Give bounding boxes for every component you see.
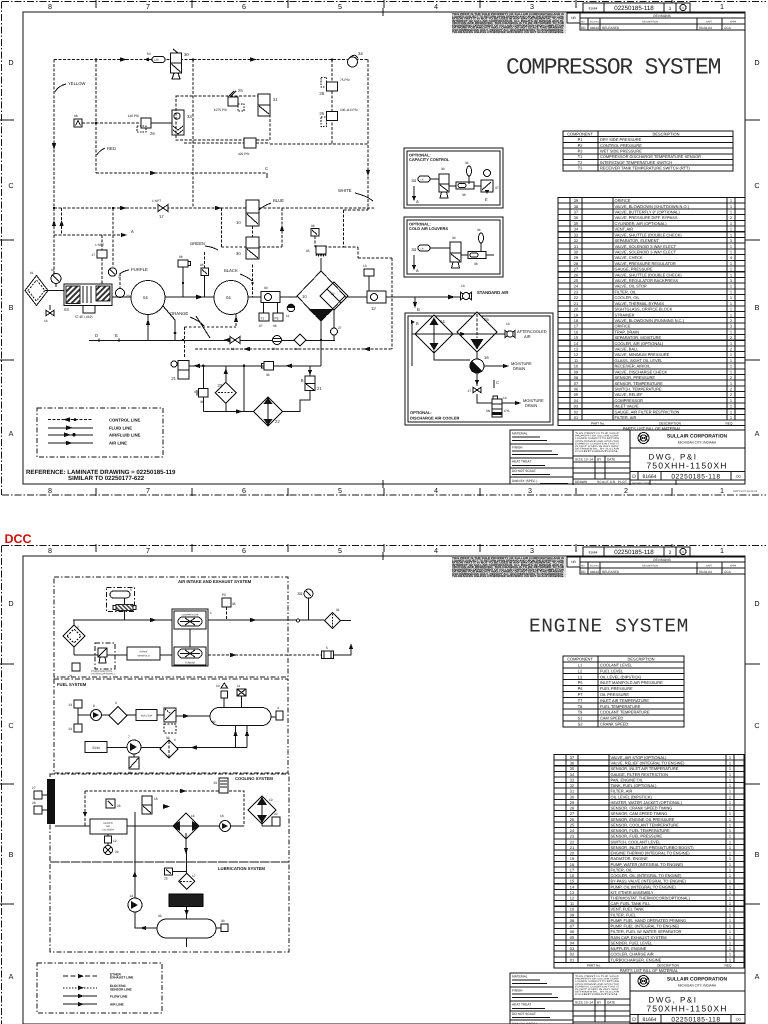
restriction gauge 02: [51, 268, 61, 287]
pill LR valve 30: [144, 52, 165, 63]
svg-text:34: 34: [465, 161, 469, 165]
svg-text:RAIN CAP, EXHAUST SYSTEM: RAIN CAP, EXHAUST SYSTEM: [611, 935, 667, 940]
svg-text:PARTS LIST BILL OF MATERIAL: PARTS LIST BILL OF MATERIAL: [620, 968, 679, 973]
svg-text:32: 32: [570, 783, 574, 788]
svg-text:COMPRESSOR: COMPRESSOR: [615, 398, 644, 403]
svg-text:P5: P5: [222, 593, 226, 597]
coolant sensor 28: [32, 801, 47, 814]
svg-text:29: 29: [115, 850, 119, 854]
svg-text:13: 13: [231, 347, 235, 351]
svg-text:KIT, ETHER ASSEMBLY: KIT, ETHER ASSEMBLY: [611, 890, 654, 895]
svg-text:27: 27: [574, 267, 578, 272]
svg-text:A: A: [9, 972, 14, 981]
svg-text:FUEL PRESSURE: FUEL PRESSURE: [600, 686, 633, 691]
svg-text:SENSOR, INLET AIR PRESS(TURBO: SENSOR, INLET AIR PRESS(TURBO BOOST): [611, 845, 695, 850]
svg-text:THERMOSTAT, THERMOCORD(OPTIONA: THERMOSTAT, THERMOCORD(OPTIONAL): [611, 896, 691, 901]
compressor drain stems: [146, 306, 238, 340]
svg-text:1: 1: [730, 381, 732, 386]
oil line to lube: [184, 833, 188, 873]
svg-text:3: 3: [528, 486, 532, 495]
svg-text:ECN No.: ECN No.: [590, 21, 600, 24]
svg-text:MATERIAL: MATERIAL: [512, 975, 528, 979]
svg-text:A: A: [9, 429, 14, 438]
ether injector: [91, 643, 115, 676]
svg-text::OO: :OO: [735, 1018, 741, 1022]
label black: [224, 268, 252, 281]
svg-text:1: 1: [729, 946, 731, 951]
cooling system box: [50, 774, 289, 862]
component legend table: [563, 131, 733, 171]
svg-text:03-04-04: 03-04-04: [699, 26, 712, 30]
fuel line: [78, 708, 91, 724]
svg-text:P3: P3: [578, 149, 584, 154]
svg-text::OO: :OO: [735, 475, 741, 479]
component legend table: [563, 656, 684, 727]
svg-text:5: 5: [338, 486, 342, 495]
separator element 32: [320, 282, 348, 310]
svg-text:5: 5: [338, 546, 342, 555]
svg-text:COMPONENT: COMPONENT: [567, 131, 593, 136]
svg-text:12: 12: [113, 839, 117, 843]
svg-text:COLD AIR LOUVERS: COLD AIR LOUVERS: [409, 226, 448, 231]
label blue: [259, 198, 284, 210]
svg-text:EXPRESS CONDITION THAT IT: EXPRESS CONDITION THAT IT: [575, 985, 620, 988]
svg-text:19: 19: [570, 856, 574, 861]
svg-text:13: 13: [363, 264, 367, 268]
shuttle valve 33: [172, 110, 192, 135]
svg-text:PUMP, OIL (INTEGRAL TO ENGINE): PUMP, OIL (INTEGRAL TO ENGINE): [611, 884, 677, 889]
svg-text:AIR LINE: AIR LINE: [109, 441, 127, 446]
svg-text:CONTROL PRESSURE: CONTROL PRESSURE: [600, 143, 642, 148]
svg-text:7: 7: [146, 2, 150, 11]
svg-text:36: 36: [266, 373, 270, 377]
svg-text:12: 12: [574, 352, 578, 357]
svg-text:RELEASED: RELEASED: [602, 570, 620, 574]
border ruler left: [0, 2, 14, 496]
oil filter 23: [215, 366, 236, 412]
svg-text:FILTER, OIL: FILTER, OIL: [611, 867, 634, 872]
svg-text:D: D: [632, 474, 636, 480]
label green: [190, 241, 218, 250]
drain trap 16: [44, 305, 54, 323]
svg-text:14: 14: [129, 894, 133, 898]
ECM box: [85, 742, 107, 753]
svg-text:ETHER INJECTION: ETHER INJECTION: [91, 670, 112, 673]
svg-text:COMPRESSOR DISCHARGE TEMPERATU: COMPRESSOR DISCHARGE TEMPERATURE SENSOR: [600, 154, 701, 159]
svg-text:SENSOR, CRANK SPEED TIMING: SENSOR, CRANK SPEED TIMING: [611, 806, 673, 811]
sensor 26: [106, 799, 121, 808]
svg-text:DRAWN: DRAWN: [575, 480, 588, 484]
svg-text:P6: P6: [578, 686, 584, 691]
svg-text:FILTER, OIL: FILTER, OIL: [615, 289, 638, 294]
svg-text:16: 16: [484, 355, 489, 360]
svg-text:DESCRIPTION: DESCRIPTION: [628, 657, 655, 662]
wire filter to pan: [184, 907, 188, 920]
svg-text:DETRIMENTAL. BY SULLAIR: DETRIMENTAL. BY SULLAIR: [575, 448, 619, 451]
svg-text:P5: P5: [578, 680, 584, 685]
svg-text:08: 08: [311, 224, 315, 228]
svg-text:2: 2: [730, 215, 732, 220]
svg-text:INLET VALVE: INLET VALVE: [615, 404, 640, 409]
svg-text:31: 31: [574, 244, 578, 249]
svg-text:SYSTEM (OPTIONAL): SYSTEM (OPTIONAL): [91, 673, 115, 676]
gauge 27b: [331, 310, 342, 341]
svg-text:UPON DEMAND AND UPON THE: UPON DEMAND AND UPON THE: [575, 440, 620, 443]
fuel sensor 24: [68, 724, 82, 732]
svg-text:2: 2: [730, 318, 732, 323]
svg-text:NO: NO: [581, 21, 585, 24]
tank vent 10: [216, 683, 228, 708]
svg-text:T2: T2: [578, 160, 583, 165]
svg-text:COOLER, OIL: COOLER, OIL: [615, 295, 641, 300]
svg-text:6: 6: [174, 738, 176, 742]
svg-text:02250185-118: 02250185-118: [671, 474, 720, 481]
svg-text:TOLERANCES UNLESS OTHERWISE SP: TOLERANCES UNLESS OTHERWISE SPECIFIED. D…: [452, 575, 564, 578]
svg-text:140 PSI: 140 PSI: [128, 114, 139, 118]
svg-text:1: 1: [729, 935, 731, 940]
svg-text:30: 30: [236, 251, 241, 256]
svg-text:1: 1: [730, 295, 732, 300]
receiver oil sump: [308, 309, 334, 321]
svg-text:19: 19: [269, 798, 273, 802]
svg-text:1: 1: [729, 817, 731, 822]
svg-text:39: 39: [574, 198, 578, 203]
svg-text:11: 11: [237, 684, 241, 688]
svg-text:AFTERCOOLED: AFTERCOOLED: [517, 329, 547, 334]
svg-text:FUEL SYSTEM: FUEL SYSTEM: [57, 682, 87, 687]
svg-text:3N: 3N: [486, 409, 491, 413]
svg-text:1: 1: [730, 409, 732, 414]
oil sensor 25: [164, 868, 187, 881]
svg-text:MICHIGAN CITY, INDIANA: MICHIGAN CITY, INDIANA: [678, 984, 717, 988]
svg-text:1: 1: [730, 369, 732, 374]
svg-text:HEATER, WATER JACKET (OPTIONAL: HEATER, WATER JACKET (OPTIONAL): [611, 800, 683, 805]
svg-text:01: 01: [570, 957, 574, 962]
svg-text:EXHAUST LINE: EXHAUST LINE: [110, 976, 133, 980]
svg-text:HEATED: HEATED: [103, 822, 113, 825]
svg-text:1: 1: [730, 341, 732, 346]
svg-text:UPON DEMAND AND UPON THE: UPON DEMAND AND UPON THE: [575, 983, 620, 986]
svg-text:26: 26: [117, 804, 121, 808]
svg-text:DD: DD: [581, 26, 586, 30]
svg-text:T3: T3: [578, 166, 583, 171]
svg-text:DESCRIPTION: DESCRIPTION: [659, 421, 681, 425]
svg-text:1: 1: [729, 806, 731, 811]
svg-text:33: 33: [158, 914, 162, 918]
reference note: [26, 469, 176, 482]
svg-text:DATE: DATE: [706, 21, 712, 24]
long oil return: [133, 812, 137, 900]
svg-text:IS NOT USED IN ANY WAY: IS NOT USED IN ANY WAY: [575, 988, 620, 991]
svg-text:1: 1: [729, 879, 731, 884]
compressor 04 stage2: [214, 281, 248, 315]
wire control vertical x96: [95, 60, 97, 174]
turbocharger 01 unit: [172, 609, 212, 666]
svg-text:ORIFICE: ORIFICE: [615, 324, 631, 329]
svg-text:1: 1: [730, 329, 732, 334]
svg-text:VALVE, CHECK: VALVE, CHECK: [615, 255, 643, 260]
svg-text:750XHH-1150XH: 750XHH-1150XH: [646, 461, 727, 471]
rain cap 05: [322, 644, 354, 659]
svg-text:75 PSI: 75 PSI: [340, 78, 350, 82]
svg-text:T1: T1: [578, 154, 583, 159]
wire blue vertical: [252, 226, 254, 237]
svg-text:DESCRIPTION: DESCRIPTION: [653, 131, 680, 136]
air filter 01: [25, 271, 48, 306]
oil pump 14: [128, 894, 142, 912]
svg-text:SEPARATOR, MOISTURE: SEPARATOR, MOISTURE: [615, 335, 662, 340]
moisture separator 15: [457, 312, 497, 352]
svg-text:1: 1: [730, 261, 732, 266]
svg-text:33: 33: [187, 114, 192, 119]
svg-text:25: 25: [319, 111, 324, 116]
svg-text:30: 30: [452, 236, 456, 240]
injector block: [127, 710, 157, 721]
engine radiator fan 19: [248, 796, 276, 824]
svg-text:AIR: AIR: [106, 825, 110, 828]
svg-text:DETRIMENTAL. BY SULLAIR: DETRIMENTAL. BY SULLAIR: [575, 991, 619, 994]
svg-text:420 PSI: 420 PSI: [238, 152, 249, 156]
optional discharge air cooler box: [405, 313, 553, 425]
svg-text:7: 7: [146, 546, 150, 555]
svg-text:SENSOR, COOLANT TEMPERATURE: SENSOR, COOLANT TEMPERATURE: [611, 822, 680, 827]
svg-text:04: 04: [143, 295, 148, 300]
svg-text:04644: 04644: [590, 570, 599, 574]
svg-text:CONTROL LINE: CONTROL LINE: [109, 417, 141, 422]
label white: [338, 188, 373, 201]
receiver tank 10: [297, 271, 345, 321]
svg-text:1: 1: [730, 209, 732, 214]
regulator 28: [319, 78, 349, 97]
water pump 18: [220, 814, 231, 832]
drawing frame: [23, 556, 745, 1024]
svg-text:5: 5: [338, 2, 342, 11]
svg-text:8: 8: [48, 486, 52, 495]
svg-text:OIL PRESSURE: OIL PRESSURE: [600, 692, 629, 697]
svg-text:DO NOT SCALE: DO NOT SCALE: [512, 1012, 536, 1016]
svg-text:GLASS, SIGHT OIL LEVEL: GLASS, SIGHT OIL LEVEL: [615, 358, 664, 363]
svg-text:19: 19: [574, 312, 578, 317]
svg-text:13: 13: [506, 322, 510, 326]
svg-text:1: 1: [669, 6, 672, 12]
svg-text:DRAIN: DRAIN: [513, 366, 525, 371]
sensor 08 box: [311, 224, 344, 247]
svg-text:10: 10: [216, 684, 220, 688]
wire thermal valve out: [189, 364, 244, 368]
svg-text:36: 36: [128, 771, 132, 775]
svg-text:1 NPT: 1 NPT: [152, 199, 161, 203]
svg-text:1: 1: [730, 404, 732, 409]
svg-text:SIZE 10-14: SIZE 10-14: [575, 458, 593, 462]
svg-text:SENSOR LINE: SENSOR LINE: [110, 987, 132, 991]
optional cold air louvers box: [404, 217, 503, 277]
svg-text:TURBOCHARGER, ENGINE: TURBOCHARGER, ENGINE: [611, 957, 662, 962]
svg-text:17: 17: [570, 867, 574, 872]
svg-text:1: 1: [729, 789, 731, 794]
wire control vertical x193: [192, 60, 194, 209]
svg-text:3: 3: [530, 546, 534, 555]
fuel valve 36b: [157, 708, 176, 740]
svg-text:8: 8: [93, 704, 95, 708]
svg-text:LUBRICATION SYSTEM: LUBRICATION SYSTEM: [218, 866, 265, 871]
svg-text:08: 08: [179, 255, 183, 259]
svg-text:DESCRIPTION: DESCRIPTION: [642, 21, 658, 24]
svg-text:1: 1: [730, 301, 732, 306]
svg-text:29: 29: [213, 781, 217, 785]
svg-text:12: 12: [570, 896, 574, 901]
svg-text:VALVE, MINIMUM PRESSURE: VALVE, MINIMUM PRESSURE: [615, 352, 670, 357]
inlet valve 03: [236, 200, 259, 226]
svg-text:PROPERTY OF SULLAIR CORP.: PROPERTY OF SULLAIR CORP.: [575, 978, 619, 981]
svg-text:VALVE, RELIEF: VALVE, RELIEF: [615, 392, 644, 397]
wire discharge: [386, 295, 461, 300]
svg-text:1: 1: [729, 907, 731, 912]
svg-text:DISCHARGE AIR COOLER: DISCHARGE AIR COOLER: [410, 416, 459, 421]
svg-text:VENT, FUEL TANK: VENT, FUEL TANK: [611, 907, 645, 912]
relief valve 05: [306, 246, 326, 271]
svg-text:1: 1: [730, 249, 732, 254]
svg-text:OIL LEVEL (DIPSTICK): OIL LEVEL (DIPSTICK): [611, 794, 653, 799]
svg-text:T1: T1: [261, 317, 265, 321]
thermostat 20: [142, 796, 170, 814]
svg-text:1: 1: [729, 873, 731, 878]
svg-text:1: 1: [210, 611, 212, 615]
svg-text:C: C: [496, 380, 499, 385]
svg-text:21: 21: [570, 845, 574, 850]
svg-text:DO NOT SCALE: DO NOT SCALE: [512, 469, 536, 473]
lube label box: [169, 894, 203, 907]
regulator 25: [319, 108, 357, 127]
svg-text:C: C: [8, 721, 13, 730]
pressure diff valve 36: [262, 362, 274, 378]
svg-text:ECN No.: ECN No.: [590, 565, 600, 568]
wire pump to pan: [135, 912, 157, 930]
svg-text:DATE: DATE: [607, 1001, 615, 1005]
svg-text:INTERSTAGE TEMPERATURE SWITCH: INTERSTAGE TEMPERATURE SWITCH: [600, 160, 672, 165]
svg-text:13: 13: [461, 284, 465, 288]
svg-text:18: 18: [220, 814, 224, 818]
svg-text:WHITE: WHITE: [338, 188, 352, 193]
label yellow: [55, 81, 86, 92]
svg-text:CRANK SPEED: CRANK SPEED: [600, 722, 628, 727]
svg-text:SENSOR, ENGINE OIL PRESSURE: SENSOR, ENGINE OIL PRESSURE: [611, 817, 675, 822]
svg-text:CORPORATION.: CORPORATION.: [575, 993, 620, 996]
ball valve 13a: [363, 264, 374, 291]
svg-text:FINISH: FINISH: [512, 446, 523, 450]
svg-text:02250185-118: 02250185-118: [614, 549, 654, 556]
svg-text:1: 1: [729, 839, 731, 844]
svg-text:B: B: [9, 303, 14, 312]
svg-text:4: 4: [434, 486, 438, 495]
svg-text:REQ: REQ: [726, 421, 733, 425]
svg-text:11: 11: [574, 358, 578, 363]
orifice 36 box: [200, 252, 209, 297]
fuel filter 09: [102, 701, 128, 725]
svg-text:1: 1: [730, 272, 732, 277]
svg-text:16: 16: [44, 319, 48, 323]
svg-text:08: 08: [273, 324, 277, 328]
svg-text:29: 29: [574, 255, 578, 260]
svg-text:E: E: [485, 197, 488, 202]
ball valve 13c: [230, 337, 240, 352]
svg-text:AIR LINE: AIR LINE: [110, 1003, 124, 1007]
svg-text:FILTER, AIR: FILTER, AIR: [615, 415, 637, 420]
svg-text:09: 09: [264, 286, 268, 290]
air cooler 14: [415, 315, 453, 353]
svg-text:21: 21: [317, 386, 322, 391]
svg-text:SENSOR, FUEL PRESSURE: SENSOR, FUEL PRESSURE: [611, 834, 663, 839]
svg-text:1: 1: [730, 289, 732, 294]
svg-text:1: 1: [729, 777, 731, 782]
svg-text:24: 24: [68, 727, 72, 731]
svg-text:D: D: [8, 599, 13, 608]
svg-text:APPR: APPR: [730, 21, 737, 24]
svg-text:1: 1: [730, 415, 732, 420]
svg-text:B: B: [755, 303, 760, 312]
svg-text:1: 1: [720, 2, 724, 11]
svg-text:34: 34: [358, 51, 363, 56]
pan drain: [186, 939, 188, 948]
wire to fuel tank: [176, 714, 210, 718]
svg-text:1: 1: [729, 957, 731, 962]
oil cooler 22: [254, 397, 283, 426]
svg-text:02: 02: [51, 268, 55, 272]
svg-text:8: 8: [48, 546, 52, 555]
svg-text:1: 1: [729, 912, 731, 917]
title block: [510, 430, 745, 485]
svg-text:CCA: CCA: [724, 26, 732, 30]
purple gauge 27: [108, 208, 121, 279]
drawing title: [630, 991, 745, 1014]
svg-text:VALVE, DISCHARGE CHECK: VALVE, DISCHARGE CHECK: [615, 369, 668, 374]
jacket heater 29: [213, 778, 228, 793]
revision strip boxes: [583, 3, 690, 12]
svg-text:SWITCH, COOLANT LEVEL: SWITCH, COOLANT LEVEL: [611, 839, 662, 844]
svg-text:1: 1: [729, 890, 731, 895]
svg-text:DRY SIDE PRESSURE: DRY SIDE PRESSURE: [600, 137, 642, 142]
svg-text:COOLER, CHARGE AIR: COOLER, CHARGE AIR: [611, 952, 654, 957]
svg-text:P/N (LABEL): P/N (LABEL): [179, 903, 193, 906]
wire left control vertical: [53, 60, 55, 276]
wire aftercooled air: [415, 332, 505, 336]
title block: [510, 973, 745, 1024]
label red: [97, 146, 116, 155]
svg-text:COOLANT LEVEL: COOLANT LEVEL: [600, 663, 633, 668]
svg-text:TURBINE: TURBINE: [185, 662, 196, 665]
optional capacity control box: [404, 148, 503, 208]
main air line: [73, 618, 324, 622]
svg-text:1: 1: [729, 929, 731, 934]
compressor 04 stage1: [131, 281, 165, 315]
svg-text:DCC: DCC: [5, 532, 32, 546]
drawing number row: [630, 1015, 745, 1024]
svg-text:26: 26: [150, 131, 155, 136]
svg-text:32: 32: [212, 720, 216, 724]
svg-text:SULLAIR CORPORATION: SULLAIR CORPORATION: [667, 977, 728, 983]
svg-text:27: 27: [338, 326, 342, 330]
svg-text:08: 08: [74, 114, 78, 118]
node C: [265, 166, 268, 178]
svg-text:VALVE, OIL STOP: VALVE, OIL STOP: [615, 284, 648, 289]
svg-text:LOANED SUBJECT TO RETURN: LOANED SUBJECT TO RETURN: [575, 980, 619, 983]
wire stage2 out: [248, 296, 261, 298]
svg-text:VALVE, SOLENOID 3-WAY ELECT: VALVE, SOLENOID 3-WAY ELECT: [615, 249, 677, 254]
zone numbers top: [48, 546, 724, 555]
svg-text:C: C: [754, 721, 759, 730]
svg-text:FILTER BLOCK: FILTER BLOCK: [178, 899, 195, 902]
wire oil stop stems: [283, 366, 313, 412]
svg-text:1: 1: [729, 766, 731, 771]
